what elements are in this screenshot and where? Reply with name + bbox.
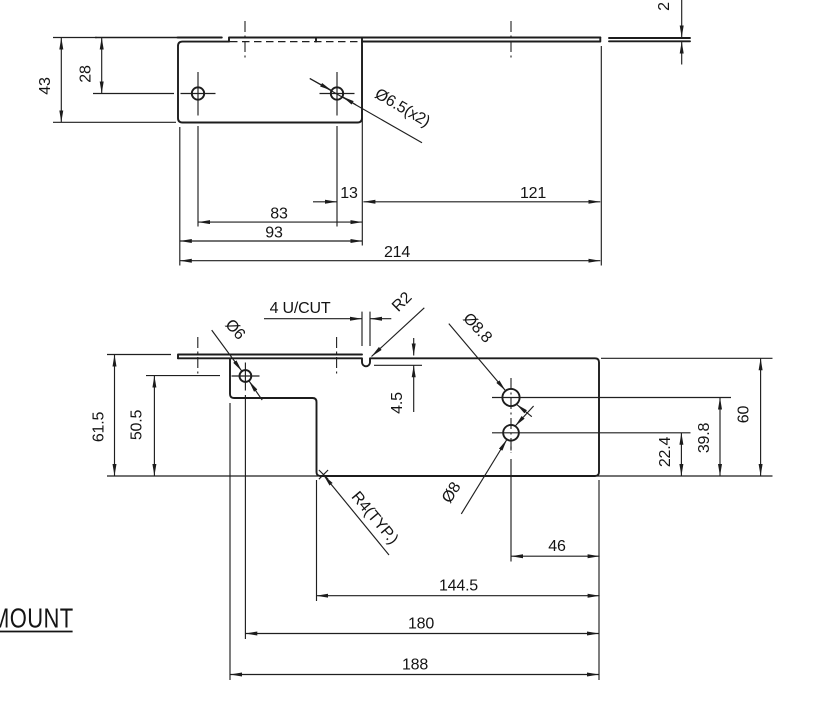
dim 180	[245, 633, 599, 635]
centerline holes phi8 projection	[510, 21, 512, 59]
svg-text:4.5: 4.5	[389, 392, 406, 414]
ext line plate right	[600, 46, 602, 266]
svg-text:93: 93	[265, 224, 283, 241]
flange strip edge-on	[178, 355, 362, 359]
dim 214	[180, 260, 601, 262]
ext 28 bottom	[93, 93, 174, 95]
svg-text:MOUNT: MOUNT	[0, 603, 74, 634]
svg-text:43: 43	[37, 77, 54, 95]
dim 61.5	[114, 355, 116, 477]
ext 61.5 top	[107, 354, 171, 356]
leader phi6.5 arrows	[310, 79, 332, 91]
svg-text:121: 121	[520, 185, 546, 202]
step projection tick	[315, 38, 317, 42]
hole phi6 cross	[232, 363, 260, 391]
hole phi8	[503, 425, 519, 441]
leader R4(TYP.)	[324, 475, 390, 555]
dim 4 U/CUT	[361, 312, 363, 346]
title underline	[0, 631, 73, 633]
dim 22.4	[680, 433, 682, 476]
dim 13 (outside arrows)	[313, 201, 337, 203]
ext hole phi6 column	[244, 395, 246, 639]
ext line flange right / U-cut	[361, 45, 363, 246]
detail plate lines	[609, 38, 690, 41]
svg-text:4 U/CUT: 4 U/CUT	[270, 300, 331, 317]
hole H1 phi6.5	[192, 87, 204, 99]
dim 83	[198, 221, 362, 223]
hole phi6	[240, 370, 252, 382]
svg-text:Ø8: Ø8	[439, 479, 465, 506]
ext 43 bottom	[53, 121, 176, 123]
ext line flange left	[179, 127, 181, 266]
svg-text:R4(TYP.): R4(TYP.)	[348, 489, 402, 548]
svg-text:13: 13	[340, 185, 358, 202]
ext 50.5 top	[146, 375, 220, 377]
svg-text:180: 180	[408, 616, 434, 633]
dim 4.5	[413, 338, 415, 356]
main profile outline	[178, 358, 599, 476]
hole H2 cross	[320, 72, 355, 116]
top edge main segment	[229, 38, 600, 42]
svg-text:Ø6.5(x2): Ø6.5(x2)	[372, 86, 433, 131]
svg-text:60: 60	[736, 406, 753, 424]
svg-text:22.4: 22.4	[657, 437, 674, 468]
dim 39.8	[719, 398, 721, 477]
dim 28	[101, 38, 103, 94]
ext line hole H1	[197, 126, 199, 227]
svg-text:83: 83	[270, 205, 288, 222]
bend centerline H2	[336, 337, 338, 375]
leader phi6.5(x2) line	[310, 79, 422, 143]
dim 2	[681, 0, 683, 38]
svg-text:46: 46	[548, 538, 566, 555]
svg-text:Ø8.8: Ø8.8	[459, 310, 495, 347]
svg-text:188: 188	[402, 656, 428, 673]
ext/cross line lower hole	[492, 432, 691, 434]
holes phi8.8 / phi8 centerline	[510, 378, 512, 453]
svg-text:28: 28	[78, 65, 95, 83]
centerline hole phi6 projection	[244, 21, 246, 59]
ext/cross line upper hole	[492, 397, 731, 399]
svg-text:R2: R2	[389, 289, 415, 315]
hole phi8.8	[502, 389, 519, 406]
hole H2 phi6.5	[331, 87, 343, 99]
ext line hole H2	[336, 126, 338, 227]
bend centerline H1	[197, 337, 199, 375]
ext left edge	[229, 403, 231, 680]
svg-text:Ø6: Ø6	[221, 316, 248, 343]
svg-text:214: 214	[384, 244, 410, 261]
dim 50.5	[153, 376, 155, 476]
leader phi8	[461, 440, 507, 514]
svg-text:50.5: 50.5	[129, 410, 146, 441]
dim 121	[363, 201, 600, 203]
top edge right extension	[601, 357, 773, 359]
dim 144.5	[316, 595, 599, 597]
svg-text:2: 2	[656, 2, 673, 11]
hole H1 cross	[181, 72, 216, 116]
flange bend hidden line	[230, 41, 361, 43]
svg-text:144.5: 144.5	[439, 578, 478, 595]
plate rect bottom line	[362, 38, 600, 42]
ext right edge	[598, 480, 600, 680]
leader phi8.8	[449, 324, 506, 391]
top edge line left segment (with 43-dim extension)	[53, 37, 97, 39]
dim 188	[230, 674, 599, 676]
leader R2	[372, 308, 425, 357]
ext hole column	[510, 447, 512, 562]
leader phi6	[212, 330, 242, 371]
dim 93	[180, 240, 362, 242]
dim 60	[760, 358, 762, 476]
dim 46	[511, 555, 600, 557]
flange outline	[178, 38, 362, 123]
svg-text:61.5: 61.5	[91, 412, 108, 443]
bottom extension line	[107, 475, 773, 477]
svg-text:39.8: 39.8	[696, 423, 713, 454]
ext step	[316, 480, 318, 601]
dim 43	[60, 38, 62, 123]
